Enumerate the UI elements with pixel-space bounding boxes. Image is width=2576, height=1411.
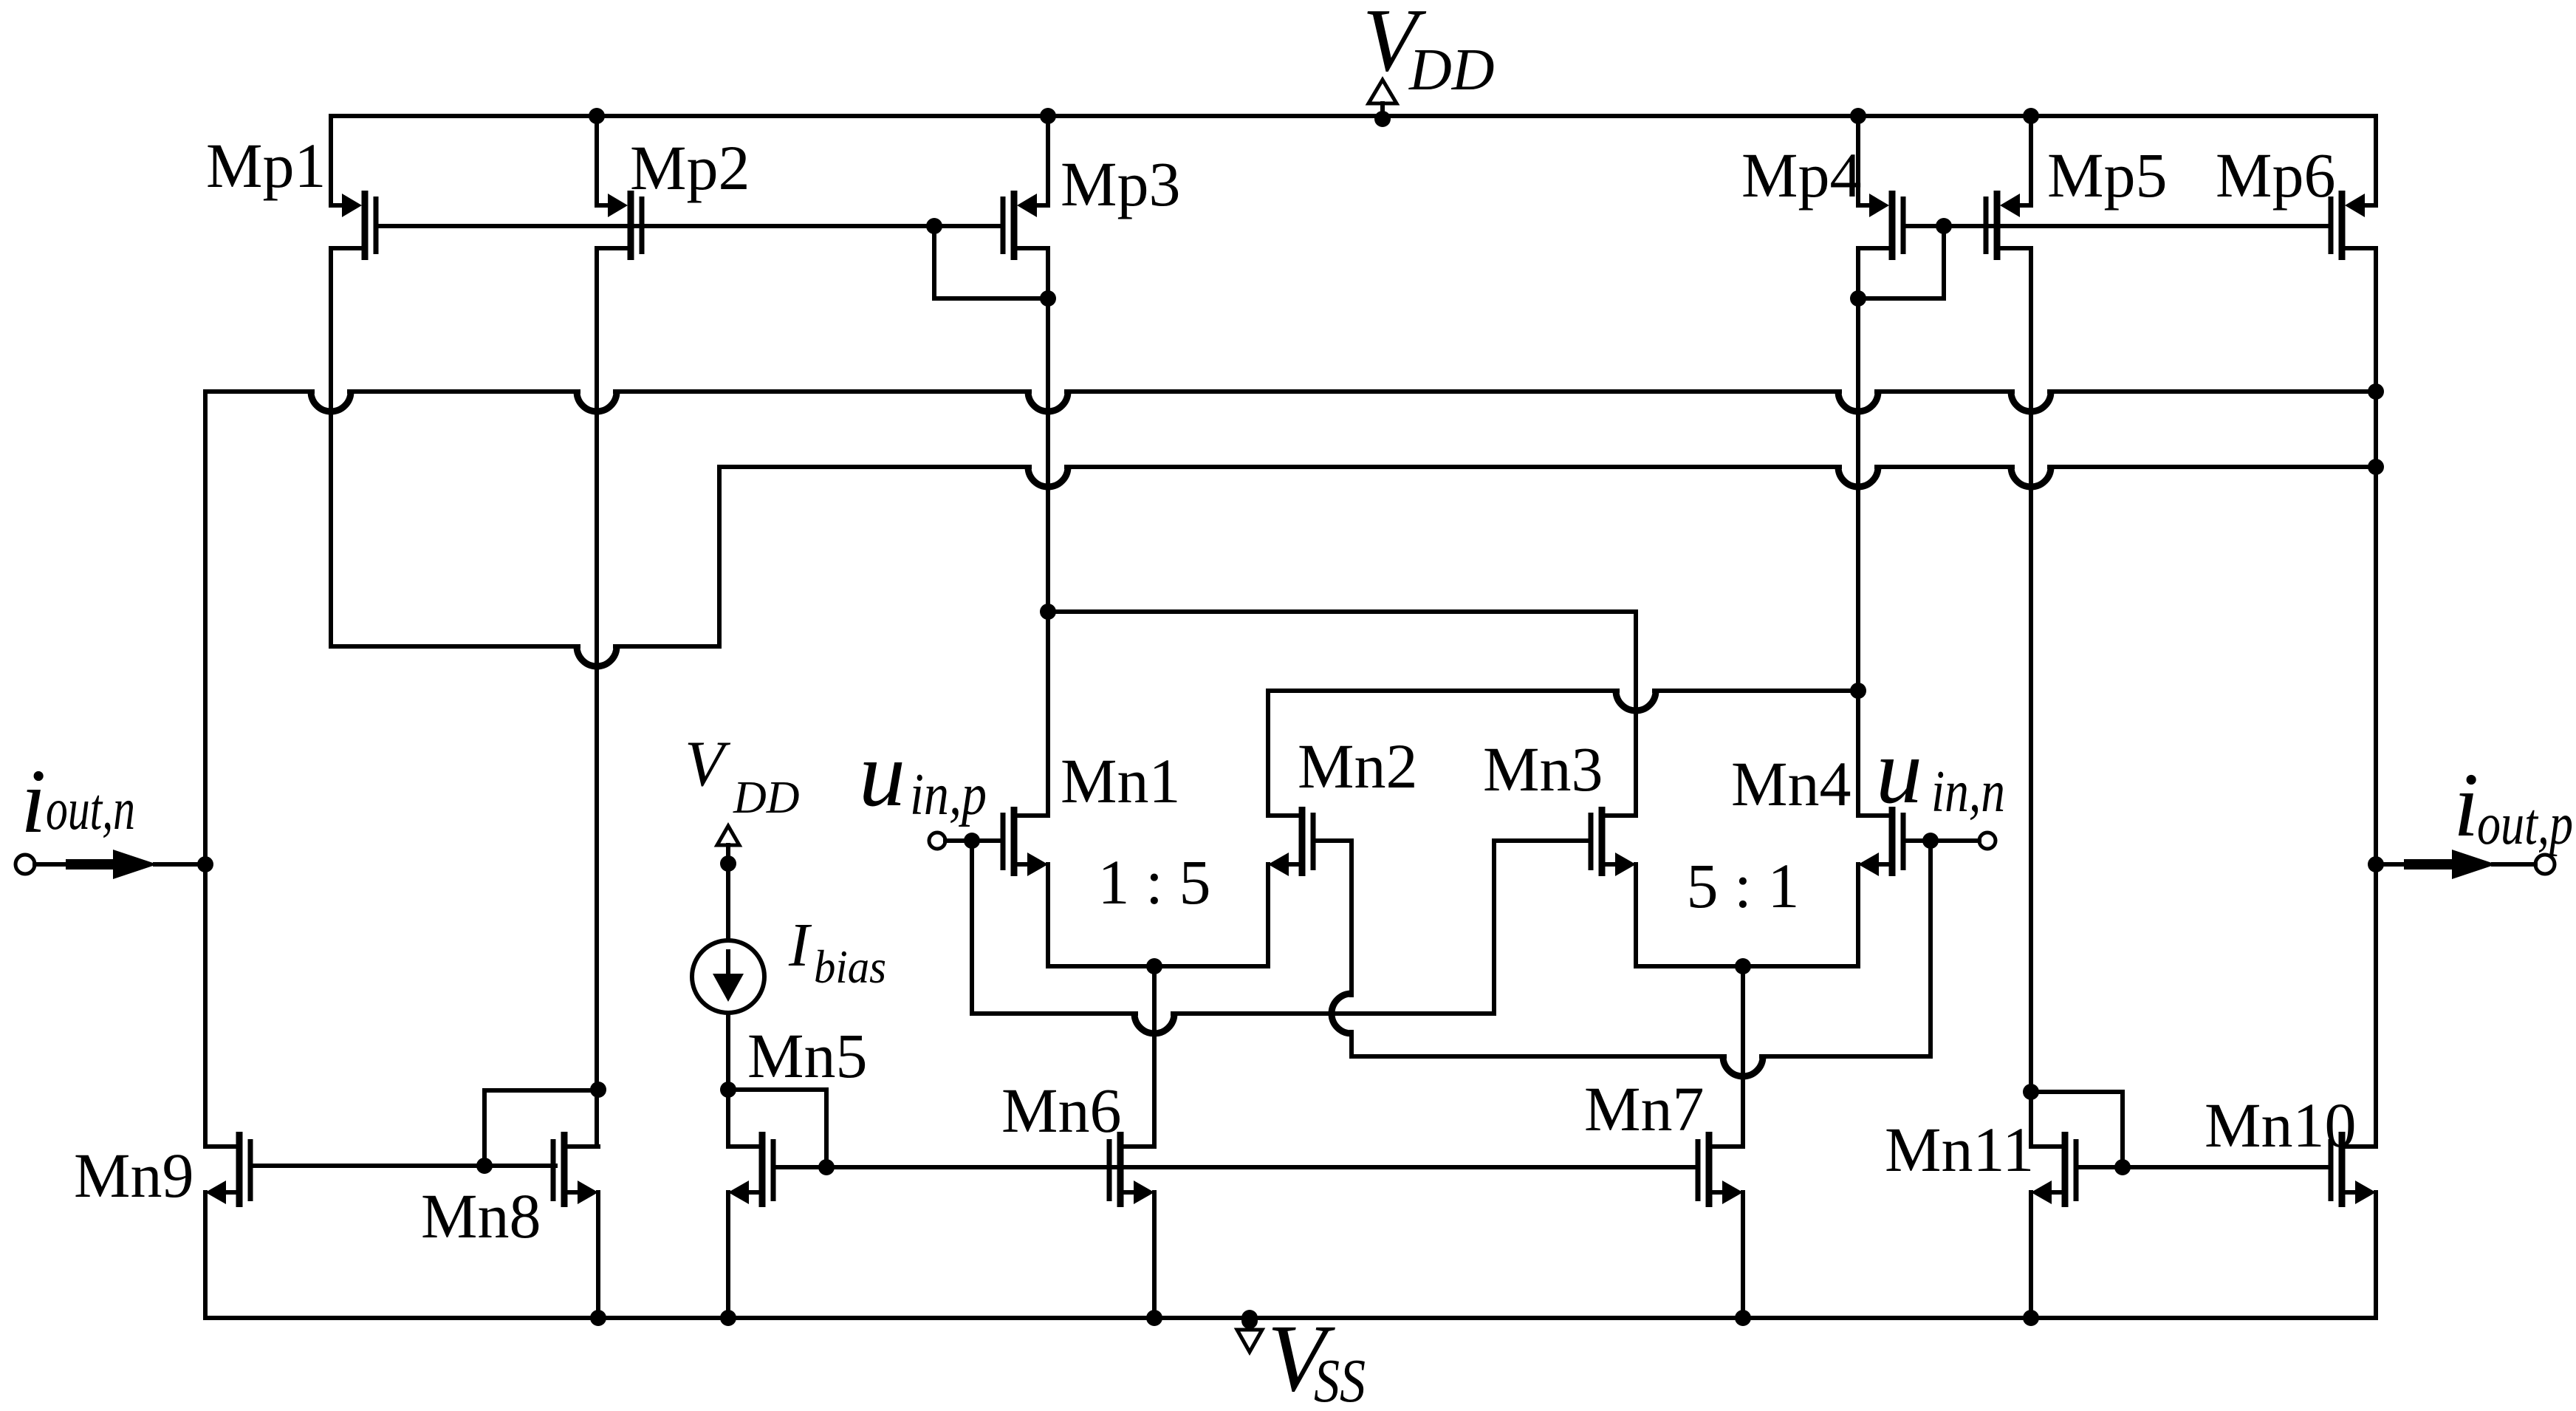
svg-text:SS: SS	[1314, 1347, 1366, 1411]
svg-text:DD: DD	[1408, 38, 1495, 103]
svg-text:V: V	[685, 728, 731, 800]
svg-text:i: i	[21, 751, 46, 852]
svg-text:Mn5: Mn5	[747, 1020, 867, 1091]
svg-text:bias: bias	[814, 940, 886, 993]
svg-text:Mn6: Mn6	[1001, 1075, 1121, 1146]
svg-text:u: u	[1876, 720, 1922, 823]
svg-text:Mn3: Mn3	[1483, 734, 1603, 804]
svg-text:Mn9: Mn9	[74, 1140, 193, 1211]
svg-text:in,p: in,p	[910, 762, 987, 827]
svg-text:5 : 1: 5 : 1	[1687, 850, 1800, 921]
svg-text:in,n: in,n	[1931, 759, 2005, 824]
svg-text:i: i	[2453, 754, 2479, 855]
svg-text:u: u	[859, 723, 905, 826]
svg-text:Mn2: Mn2	[1298, 731, 1417, 802]
svg-text:Mn4: Mn4	[1731, 748, 1851, 819]
svg-text:DD: DD	[733, 773, 800, 823]
svg-text:I: I	[788, 911, 812, 980]
svg-text:out,p: out,p	[2477, 792, 2573, 857]
svg-text:Mn1: Mn1	[1061, 745, 1180, 816]
svg-text:Mn11: Mn11	[1885, 1114, 2034, 1185]
svg-text:Mn7: Mn7	[1584, 1073, 1704, 1144]
svg-text:Mp2: Mp2	[630, 132, 750, 203]
svg-text:out,n: out,n	[46, 777, 135, 842]
svg-text:Mn8: Mn8	[421, 1181, 541, 1251]
svg-text:Mp5: Mp5	[2047, 140, 2167, 211]
svg-text:Mp4: Mp4	[1741, 140, 1861, 211]
svg-text:Mp1: Mp1	[206, 130, 326, 201]
svg-text:Mn10: Mn10	[2205, 1090, 2356, 1161]
svg-text:Mp6: Mp6	[2216, 140, 2335, 211]
svg-text:1 : 5: 1 : 5	[1098, 847, 1211, 918]
svg-text:Mp3: Mp3	[1061, 148, 1180, 219]
